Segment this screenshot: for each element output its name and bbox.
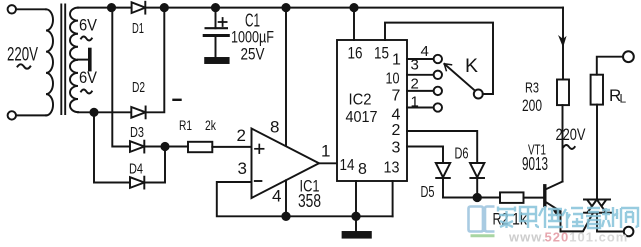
svg-text:8: 8 [270,118,279,137]
svg-text:4017: 4017 [346,109,378,126]
op-amp plus input mark [255,145,264,154]
watermark book icon [469,207,495,236]
node IC2 pin16 top rail junction [350,4,357,11]
svg-text:1: 1 [411,94,419,111]
wire vertical from secondary top down to D3 [112,8,130,147]
node secondary-top junction [108,4,115,11]
svg-text:13: 13 [384,160,400,177]
terminal output top circle [623,51,634,62]
svg-text:25V: 25V [241,44,266,63]
svg-text:2: 2 [237,126,246,145]
wire RL top to output terminal [597,57,623,75]
label RL [609,86,627,106]
transformer T secondary winding [70,8,78,113]
tilde under output 220V [564,145,575,149]
diode D4 [130,177,144,189]
wire IC2 pin4 to contact [407,107,434,109]
watermark pseudo chinese glyphs [498,206,638,228]
ground symbol under IC2 [343,216,371,237]
resistor R2 [500,192,524,203]
svg-text:L: L [620,92,627,106]
wire triac MT2 up to RL [596,105,598,200]
transistor VT1 9013 [545,182,563,232]
svg-text:D1: D1 [132,20,144,37]
wire secondary top to D1 [78,7,132,9]
wire VT1 emitter to triac gate [561,214,593,232]
label minus sign [174,99,181,101]
svg-text:4: 4 [421,43,429,60]
wire R2 to VT1 base [524,197,545,199]
node D3-D4 junction [161,143,168,150]
op-amp minus input mark [255,180,262,182]
wire R3 to VT1 collector [562,105,564,181]
svg-text:7: 7 [392,88,401,105]
svg-text:14: 14 [340,157,355,174]
transformer core [61,5,65,115]
svg-text:2: 2 [392,122,401,139]
resistor R3 [557,80,569,106]
svg-text:www.: www. [508,230,546,245]
IC2 4017 box [337,40,407,181]
wire op-amp output to IC2 pin14 [319,162,337,164]
wire D5 D6 rail to R2 [443,197,500,199]
svg-text:D6: D6 [455,145,469,162]
diode D1 [132,2,146,14]
wire pin8 riser [285,8,287,147]
resistor R1 [188,142,212,152]
svg-text:220V: 220V [7,45,38,66]
svg-text:101.com: 101.com [569,230,628,245]
svg-text:R1: R1 [179,117,192,133]
switch K wiper arm with arrow [444,64,475,91]
svg-text:6V: 6V [79,69,97,87]
wire D2 cathode up to top rail [146,8,165,113]
wire IC2 pin7 to contact [407,90,434,92]
node secondary-bottom junction [90,109,97,116]
svg-text:8: 8 [358,161,367,178]
terminal bottom-left AC input [8,111,46,119]
svg-text:K: K [465,56,478,77]
watermark url [508,230,628,245]
svg-text:D5: D5 [421,184,435,201]
svg-text:4: 4 [272,187,281,206]
wire D4 cathode up to R1 node [144,147,165,183]
tilde under 220V [18,64,31,68]
svg-text:6V: 6V [79,17,97,35]
wire pin16 riser [353,8,355,40]
svg-text:1: 1 [392,52,401,69]
wire IC2 pin10 to contact [407,74,434,76]
wire IC2 pin1 to contact [407,58,434,60]
svg-text:15: 15 [374,43,389,62]
C1 plus sign [219,18,227,26]
svg-text:220V: 220V [556,125,586,144]
svg-text:D3: D3 [130,124,144,141]
svg-text:D4: D4 [129,161,143,178]
svg-text:520: 520 [545,230,570,245]
terminal top-left AC input [8,5,46,13]
op-amp IC1 triangle [252,129,320,199]
svg-text:3: 3 [392,140,401,157]
ground under C1 [205,58,228,63]
wire D3 cathode to R1 node [144,146,165,148]
diode D2 [131,107,145,119]
transformer T primary winding [46,9,53,115]
triac VS [584,200,611,213]
svg-text:9013: 9013 [522,154,548,174]
tilde under lower 6V [81,90,92,94]
wire top rail corner down to R3 with current arrow [559,8,565,80]
diode D6 pointing down [470,163,484,198]
switch contact position 1 circle [434,103,442,111]
diode D5 pointing down [436,163,450,198]
tilde under upper 6V [81,37,92,41]
terminal output bottom circle [624,227,634,237]
node pin4 rail junction [282,213,289,220]
switch contact position 2 circle [434,87,442,95]
wire op-amp pin4 to ground rail [285,180,287,216]
wire pin15 loop to switch common [385,23,493,94]
svg-text:R3: R3 [525,80,539,97]
svg-text:200: 200 [522,96,542,115]
wire IC2 pin13 ground drop [392,181,394,216]
svg-text:3: 3 [238,159,247,178]
wire IC2 pin2 to D6 [407,131,477,163]
svg-text:1: 1 [321,142,330,161]
svg-text:4: 4 [392,106,401,123]
node op-amp pin8 top rail junction [282,4,289,11]
svg-text:IC2: IC2 [349,92,372,109]
svg-text:3: 3 [411,57,419,74]
node C1 top junction [212,4,219,11]
wire R1 to op-amp pin2 [212,146,251,148]
switch K common contact circle [474,90,483,99]
capacitor C1 electrolytic [204,8,228,58]
node D1-D2 cathode junction [161,4,168,11]
secondary center tap stub and bar [78,50,90,70]
svg-text:2: 2 [411,76,419,93]
wire IC2 pin3 to D5 [407,147,443,164]
wire IC2 pin8 ground drop [355,181,357,216]
wire top rail D1 to C1 to IC risers [145,7,563,9]
wire secondary bottom to D2 [78,111,131,113]
wire node to R1 [165,146,188,148]
node D6 rail junction [474,194,481,201]
wire secondary bottom down to D4 [94,112,130,182]
wire pin3 feedback to ground rail [217,182,393,216]
svg-text:16: 16 [348,43,363,62]
svg-text:D2: D2 [132,79,145,96]
svg-text:10: 10 [386,71,400,88]
svg-text:358: 358 [298,191,321,211]
switch contact position 3 circle [434,71,442,79]
diode D3 [130,141,144,153]
resistor RL [591,75,603,105]
switch contact position 4 circle [434,55,442,63]
wire triac MT1 to output terminal [597,213,624,232]
node ground rail junction [352,213,359,220]
svg-text:2k: 2k [205,117,217,133]
